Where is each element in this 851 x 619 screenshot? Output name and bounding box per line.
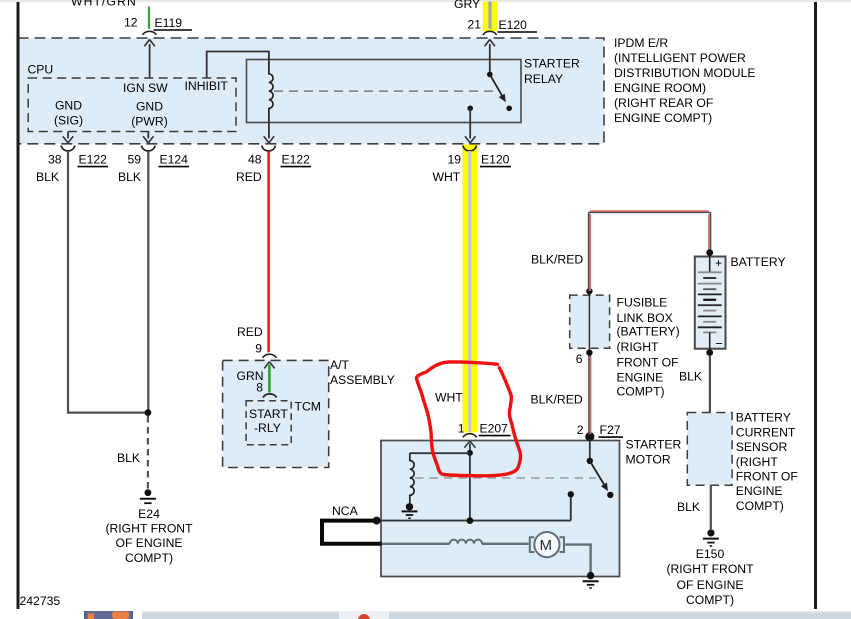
wire pin 19 inside IPDM [465, 108, 475, 143]
connector 59 E124 cup [141, 146, 155, 151]
svg-text:-RLY: -RLY [254, 421, 281, 435]
svg-text:(PWR): (PWR) [131, 115, 168, 129]
svg-text:E122: E122 [79, 153, 108, 167]
label BLK 59 [118, 170, 141, 184]
svg-text:E24: E24 [138, 507, 160, 521]
ground starter motor [583, 572, 599, 588]
svg-text:38: 38 [48, 153, 62, 167]
label 21 [467, 18, 481, 32]
riser to switch contact [570, 494, 572, 520]
junction node pin1/bus [467, 517, 474, 524]
svg-text:NCA: NCA [332, 504, 359, 518]
wire pin 48 inside IPDM (coil to bottom edge) [264, 122, 274, 143]
relay switch pivot dot [487, 72, 493, 78]
label GRN [237, 369, 264, 383]
ground E150 [703, 529, 719, 546]
svg-text:OF ENGINE: OF ENGINE [115, 536, 182, 550]
svg-text:(RIGHT REAR OF: (RIGHT REAR OF [614, 96, 713, 110]
node battery positive [706, 249, 713, 256]
label E122 second [281, 153, 312, 167]
wire pin 1 inside starter motor with arrow [464, 441, 475, 521]
svg-text:E119: E119 [155, 16, 183, 30]
wire BLK sensor to E150 ground [710, 485, 712, 529]
junction node BLK wires [145, 409, 152, 416]
node battery negative [706, 349, 713, 356]
junction node solenoid branch [467, 450, 473, 456]
label E207 [479, 422, 511, 436]
ground solenoid internal [402, 503, 418, 518]
wire WHT pin 19 [468, 151, 471, 432]
svg-text:RED: RED [237, 325, 263, 339]
svg-text:WHT/GRN: WHT/GRN [71, 0, 137, 9]
bottom strip [82, 611, 851, 619]
svg-text:(RIGHT FRONT: (RIGHT FRONT [105, 521, 193, 535]
annotation red circle [417, 362, 521, 476]
solenoid coil L1 [410, 453, 414, 503]
svg-text:CURRENT: CURRENT [736, 425, 796, 439]
svg-text:FUSIBLE: FUSIBLE [617, 296, 668, 310]
svg-text:E207: E207 [480, 422, 509, 436]
wire GND(PWR) pin 59 inside IPDM [143, 132, 153, 143]
connector 21 E120 cup [483, 31, 497, 35]
svg-text:242735: 242735 [20, 594, 61, 608]
starter motor box [381, 441, 620, 577]
svg-text:WHT: WHT [435, 391, 463, 405]
frame border left [17, 2, 20, 609]
svg-text:FRONT OF: FRONT OF [736, 470, 798, 484]
wire BLK dashed to E24 ground [147, 416, 149, 489]
connector 1 E207 cup [463, 434, 477, 438]
wire WHT highlight (yellow) pin19 to E207 [463, 145, 478, 433]
svg-text:START: START [249, 407, 288, 421]
svg-text:BLK/RED: BLK/RED [531, 253, 583, 267]
svg-text:FRONT OF: FRONT OF [617, 355, 679, 369]
svg-text:19: 19 [447, 153, 461, 167]
starter switch right contact dot [607, 492, 613, 498]
label GND (PWR) [131, 100, 168, 129]
wire to solenoid coil [410, 452, 470, 454]
label E150 block [666, 547, 754, 607]
svg-text:(INTELLIGENT POWER: (INTELLIGENT POWER [614, 51, 746, 65]
svg-text:F27: F27 [600, 423, 621, 437]
label CPU [28, 63, 54, 77]
svg-text:GND: GND [55, 99, 82, 113]
relay box (starter relay outline) [247, 60, 522, 123]
svg-text:BLK: BLK [679, 369, 702, 383]
connector 19 E120 cup [463, 146, 477, 151]
svg-text:(BATTERY): (BATTERY) [617, 325, 680, 339]
label BLK/RED lower [531, 392, 583, 406]
svg-text:BATTERY: BATTERY [731, 255, 786, 269]
label INHIBIT [185, 79, 229, 93]
label 12 [124, 16, 138, 30]
svg-text:STARTER: STARTER [626, 438, 682, 452]
label E120 top [498, 18, 538, 32]
frame border right [814, 2, 817, 609]
label IGN SW [123, 81, 168, 95]
IPDM E/R box [18, 38, 605, 144]
svg-text:COMPT): COMPT) [617, 385, 665, 399]
label 59 [127, 153, 141, 167]
label STARTER RELAY [524, 57, 580, 87]
label BATTERY [731, 255, 786, 269]
svg-text:RELAY: RELAY [524, 72, 563, 86]
svg-text:E120: E120 [499, 18, 528, 32]
svg-text:(SIG): (SIG) [54, 114, 83, 128]
wire BLK/RED fusible to battery [589, 211, 711, 291]
svg-text:RED: RED [236, 170, 262, 184]
svg-text:6: 6 [576, 352, 583, 366]
label TCM [295, 400, 321, 414]
svg-text:ENGINE: ENGINE [617, 371, 664, 385]
svg-text:TCM: TCM [295, 400, 321, 414]
label A/T ASSEMBLY [330, 358, 395, 387]
label E120 bottom [480, 153, 511, 167]
connector 2 F27 node dot [585, 432, 594, 441]
connector 12 E119 cup [143, 31, 157, 35]
svg-text:48: 48 [248, 153, 262, 167]
TCM box [246, 401, 291, 445]
svg-text:SENSOR: SENSOR [736, 440, 788, 454]
svg-text:STARTER: STARTER [524, 57, 580, 71]
relay switch common wire to pin 21 [485, 40, 495, 75]
svg-text:BLK: BLK [117, 451, 140, 465]
bus wire inside starter motor [377, 520, 571, 522]
label 6 [576, 352, 583, 366]
relay switch blade [490, 74, 506, 102]
label 19 [447, 153, 461, 167]
relay coil [269, 60, 273, 122]
wire RED pin 48 [267, 151, 269, 352]
motor circuit wire [382, 544, 591, 574]
wire BLK battery to current sensor [709, 355, 711, 413]
label RED lower [237, 325, 263, 339]
label 2 [577, 423, 584, 437]
label BLK left dashed wire [117, 451, 140, 465]
junction node NCA [373, 517, 381, 525]
svg-text:E122: E122 [282, 153, 311, 167]
svg-text:DISTRIBUTION MODULE: DISTRIBUTION MODULE [614, 66, 756, 80]
svg-text:MOTOR: MOTOR [626, 452, 671, 466]
relay contact dot right [506, 106, 512, 112]
label E124 [159, 153, 190, 167]
svg-text:OF ENGINE: OF ENGINE [676, 578, 743, 592]
svg-text:2: 2 [577, 423, 584, 437]
svg-text:BATTERY: BATTERY [736, 411, 791, 425]
svg-text:ENGINE: ENGINE [736, 484, 783, 498]
label GND (SIG) [54, 99, 83, 128]
svg-text:BLK: BLK [118, 170, 141, 184]
label RED upper [236, 170, 262, 184]
svg-text:ASSEMBLY: ASSEMBLY [330, 373, 395, 387]
svg-text:M: M [540, 537, 553, 554]
svg-text:LINK BOX: LINK BOX [617, 311, 673, 325]
label 8 [256, 381, 263, 395]
label E119 [154, 16, 193, 30]
A/T assembly box [223, 360, 329, 467]
svg-text:WHT: WHT [433, 170, 461, 184]
label WHT/GRN [71, 0, 137, 9]
wire INHIBIT to relay coil [207, 52, 269, 79]
svg-text:59: 59 [127, 153, 141, 167]
relay contact dot left (to pin 19) [467, 106, 473, 112]
svg-text:IPDM E/R: IPDM E/R [614, 36, 668, 50]
label 1 [458, 422, 465, 436]
svg-text:COMPT): COMPT) [125, 551, 173, 565]
wire BLK pin 59 [147, 151, 149, 413]
svg-text:E150: E150 [696, 547, 725, 561]
wire NCA thick stub [322, 521, 382, 544]
label FUSIBLE LINK BOX block [617, 296, 680, 399]
svg-text:GND: GND [136, 100, 163, 114]
svg-text:(RIGHT: (RIGHT [617, 340, 660, 354]
label STARTER MOTOR [626, 438, 682, 467]
label 48 [248, 153, 262, 167]
label BATTERY CURRENT SENSOR block [736, 411, 798, 513]
svg-text:IGN SW: IGN SW [123, 81, 168, 95]
connector 48 E122 cup [262, 146, 276, 151]
label 242735 [20, 594, 61, 608]
starter switch pivot dot [587, 458, 593, 464]
wire GRN inside A/T with arrow [264, 362, 274, 393]
svg-text:E124: E124 [160, 153, 189, 167]
svg-text:BLK: BLK [677, 500, 700, 514]
label BLK/RED upper [531, 253, 583, 267]
svg-text:COMPT): COMPT) [736, 499, 784, 513]
svg-text:21: 21 [467, 18, 481, 32]
label WHT upper [433, 170, 461, 184]
svg-text:1: 1 [458, 422, 465, 436]
label START -RLY [249, 407, 288, 435]
svg-text:8: 8 [256, 381, 263, 395]
motor M symbol [530, 532, 564, 557]
svg-text:CPU: CPU [28, 63, 54, 77]
fusible link box 6 [570, 292, 610, 352]
label 9 [255, 341, 262, 355]
label F27 [599, 423, 624, 437]
wire BLK/RED pin2 F27 to fusible link [589, 353, 591, 434]
connector 38 E122 cup [61, 146, 75, 151]
wire WHT/GRN (green) top to connector 12 [148, 7, 150, 30]
starter switch common wire [589, 439, 591, 461]
label GRY [454, 0, 480, 11]
connector 8 cup [263, 394, 277, 398]
svg-text:(RIGHT: (RIGHT [736, 455, 779, 469]
svg-text:COMPT): COMPT) [686, 593, 734, 607]
svg-text:E120: E120 [481, 153, 510, 167]
starter actuator dashed link [415, 477, 596, 479]
svg-text:(RIGHT FRONT: (RIGHT FRONT [666, 562, 754, 576]
label BLK battery-sensor [679, 369, 702, 383]
label BLK 38 [36, 170, 59, 184]
label E24 block [105, 507, 193, 565]
connector 9 cup [263, 354, 277, 358]
svg-text:9: 9 [255, 341, 262, 355]
svg-text:12: 12 [124, 16, 138, 30]
battery current sensor box [687, 413, 732, 486]
wire GRY highlight (yellow) top [483, 2, 498, 32]
svg-text:+: + [715, 256, 722, 270]
label BLK sensor-ground [677, 500, 700, 514]
svg-text:A/T: A/T [330, 358, 350, 372]
svg-text:ENGINE ROOM): ENGINE ROOM) [614, 81, 706, 95]
CPU box [28, 78, 236, 132]
label E122 first [78, 153, 109, 167]
wire IGN SW to pin 12 (inside IPDM) [144, 40, 154, 79]
label NCA [332, 504, 359, 518]
ground E24 [140, 489, 156, 503]
node fusible bottom (pin 6) [586, 349, 592, 355]
svg-text:ENGINE COMPT): ENGINE COMPT) [614, 111, 712, 125]
svg-text:BLK: BLK [36, 170, 59, 184]
starter switch left contact dot [568, 491, 574, 497]
wire GND(SIG) pin 38 inside IPDM [63, 132, 73, 143]
starter switch blade [590, 461, 608, 491]
relay actuator dashed link [274, 90, 497, 92]
svg-text:GRY: GRY [454, 0, 480, 11]
inductor series coil [450, 540, 482, 544]
label 38 [48, 153, 62, 167]
label IPDM E/R block [614, 36, 756, 125]
wire GRY top to connector 21 [488, 2, 491, 30]
label WHT lower [435, 391, 463, 405]
node fusible top [586, 288, 592, 294]
svg-text:BLK/RED: BLK/RED [531, 392, 583, 406]
battery [695, 256, 726, 351]
wire BLK pin 38 [68, 151, 145, 413]
svg-text:INHIBIT: INHIBIT [185, 79, 229, 93]
svg-text:−: − [716, 337, 723, 351]
